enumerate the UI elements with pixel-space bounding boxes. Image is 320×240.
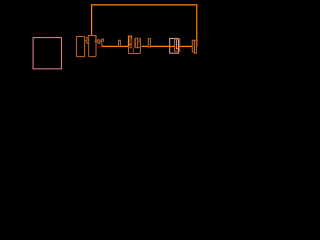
tick box C xyxy=(138,47,141,49)
box A dim xyxy=(130,39,132,48)
gate jog M2 xyxy=(87,43,89,45)
transistor M2 right edge xyxy=(95,36,97,57)
selection box pink xyxy=(170,38,179,53)
pin vertical xyxy=(139,38,141,53)
bright overlay M2 right edge xyxy=(95,36,97,42)
transistor M2 left edge xyxy=(88,38,90,57)
bright wire mid xyxy=(150,45,169,47)
transistor D xyxy=(174,39,179,51)
wire xyxy=(96,40,98,42)
box F xyxy=(194,40,196,53)
component R3 xyxy=(119,40,121,46)
pin stub inside M2 xyxy=(94,40,96,42)
bright wire to R7 xyxy=(142,45,149,47)
gate line dim xyxy=(133,39,135,48)
gate lines M2 xyxy=(87,38,89,44)
junction dot xyxy=(130,44,132,46)
crossbar node xyxy=(88,36,96,38)
lower bus wire xyxy=(129,46,141,53)
transistor M1 body xyxy=(77,37,85,57)
transistor M2 bottom edge xyxy=(89,56,96,58)
component R7 xyxy=(148,39,150,47)
box B xyxy=(135,38,137,47)
drop wire dim xyxy=(132,48,134,54)
bright wire inside selection xyxy=(170,45,175,47)
pink sheet square xyxy=(33,38,61,69)
gate box B top xyxy=(102,39,104,46)
bright riser wire xyxy=(129,36,132,46)
bright loop wire xyxy=(92,5,197,47)
gate box A xyxy=(98,40,100,44)
box E xyxy=(192,40,194,52)
bright wire right xyxy=(180,45,193,47)
bright bottom wire xyxy=(102,45,129,47)
selection inner lines xyxy=(176,38,178,48)
wire xyxy=(100,40,102,42)
gate tick M1 xyxy=(85,40,87,42)
box C dim xyxy=(138,38,140,43)
